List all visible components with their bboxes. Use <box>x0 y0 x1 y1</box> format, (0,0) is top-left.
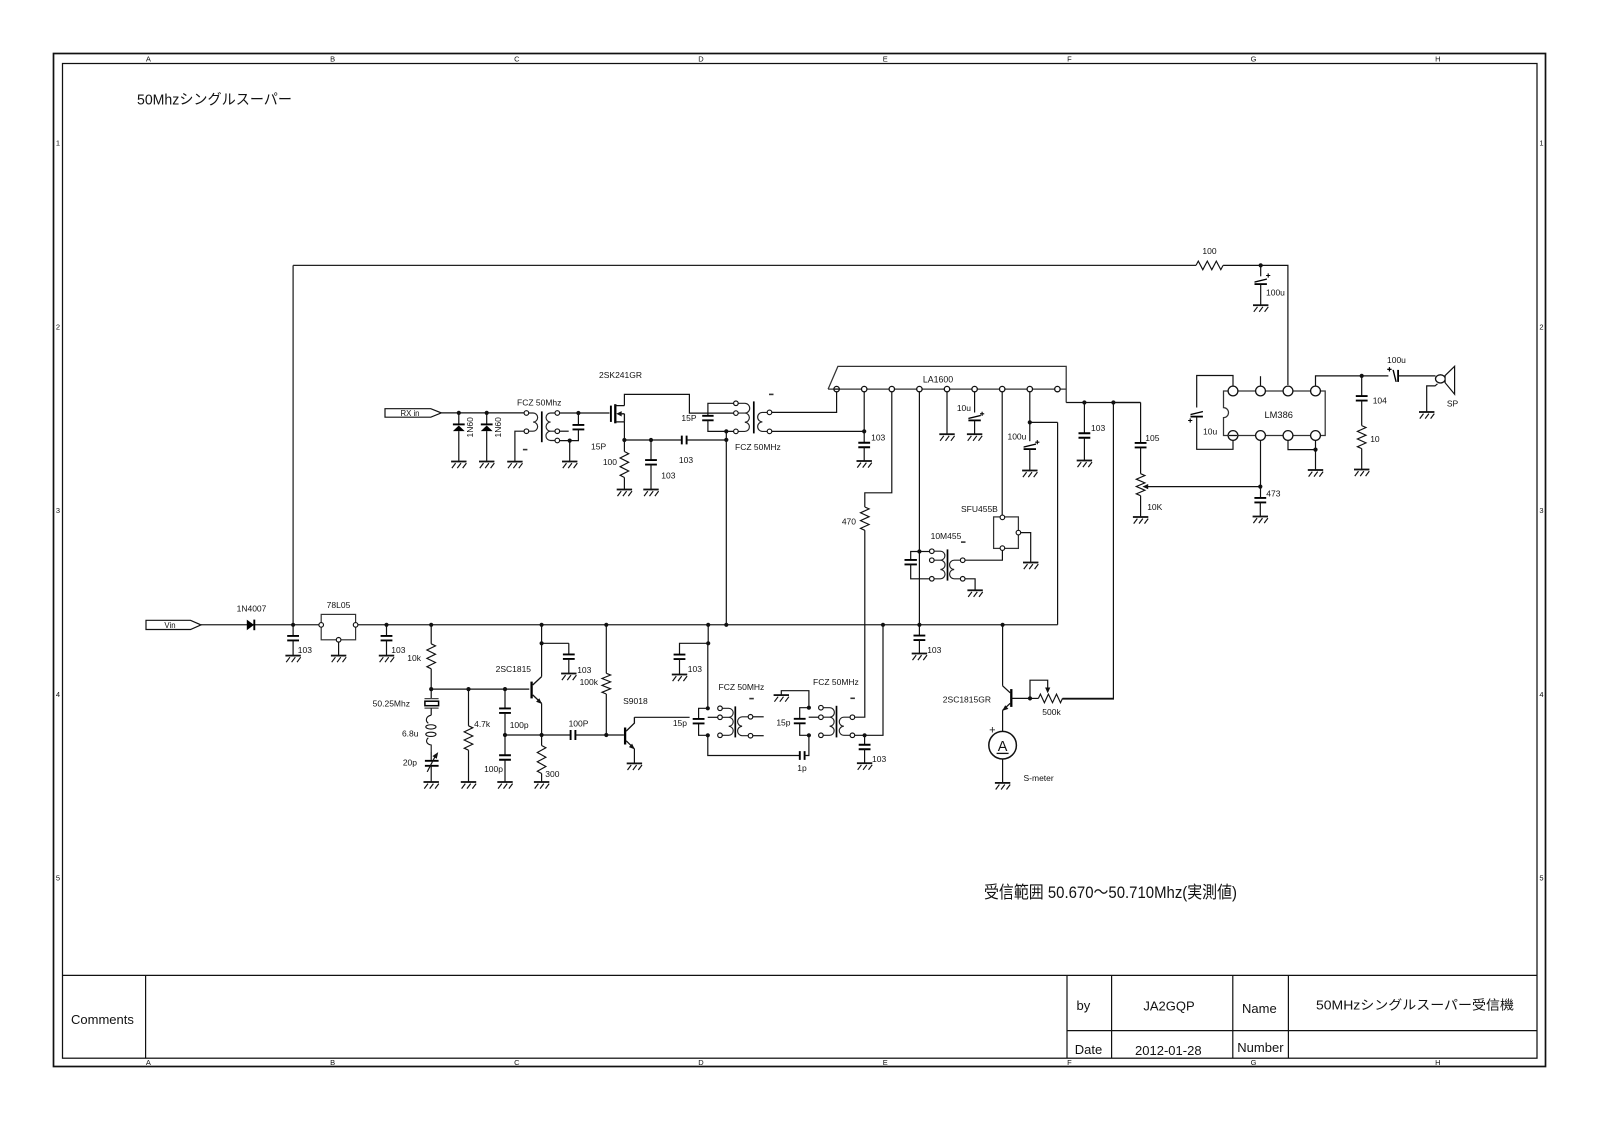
wire T2 hot to tank cap <box>708 403 734 416</box>
svg-text:10K: 10K <box>1147 502 1162 512</box>
wire C103a to ground <box>292 641 294 656</box>
wire L6.8u to trimmer <box>430 752 432 760</box>
wire C103 to ground <box>679 659 681 675</box>
ground (78L05) <box>331 656 346 663</box>
junction base line / R4.7k <box>466 687 470 691</box>
junction rail / riser <box>724 623 728 627</box>
ground (D1) <box>451 462 466 469</box>
junction C103 source bypass <box>649 438 653 442</box>
terminal 78L05 gnd <box>336 638 341 643</box>
svg-text:2SC1815GR: 2SC1815GR <box>943 695 991 705</box>
wire LA1600 pin5 lead <box>946 392 948 434</box>
svg-text:C: C <box>514 1058 520 1067</box>
transistor Q 2SK241GR MOSFET <box>610 406 612 422</box>
svg-text:RX in: RX in <box>400 409 419 418</box>
wire T4 top to ground bracket <box>781 691 809 708</box>
wire rail to 103 tap <box>707 625 709 644</box>
wire LA1600 pin3 lead to R470 <box>865 392 892 507</box>
pin 1 LA1600 <box>834 386 839 391</box>
svg-text:2: 2 <box>56 322 60 331</box>
capacitor C 104 (zobel) <box>1356 396 1368 401</box>
ground (det C103) <box>1077 461 1092 468</box>
wire T2 secondary cold to pin2 node <box>772 430 864 432</box>
svg-text:50MHzシングルスーパー受信機: 50MHzシングルスーパー受信機 <box>1316 998 1514 1013</box>
pin 7 LA1600 <box>1000 386 1005 391</box>
plus mark output cap <box>1387 367 1391 371</box>
wire RX in to T1 <box>441 412 524 414</box>
title block lines <box>63 975 1538 1058</box>
svg-text:2SK241GR: 2SK241GR <box>599 370 642 380</box>
svg-text:Name: Name <box>1242 1001 1277 1016</box>
wire T3 bottom to 1p <box>708 735 800 755</box>
pot wiper arrow 500k <box>1045 688 1050 694</box>
wire C473 to ground <box>1259 502 1261 516</box>
wire C100u to ground <box>1260 284 1262 305</box>
diode D 1N60 first <box>458 413 460 425</box>
ground (R100) <box>617 490 632 497</box>
capacitor C 15p (T3 tank) <box>693 719 705 724</box>
svg-text:103: 103 <box>927 645 941 655</box>
wire T1 to 2SK241 gate <box>560 412 610 414</box>
capacitor C 103 (rail bypass right) <box>914 636 926 641</box>
svg-text:G: G <box>1251 1058 1257 1067</box>
junction rail / R10k <box>429 623 433 627</box>
port Vin flag <box>146 620 201 629</box>
svg-text:103: 103 <box>1091 423 1105 433</box>
wire C103 to ground <box>650 465 652 490</box>
svg-text:2SC1815: 2SC1815 <box>496 664 532 674</box>
svg-text:500k: 500k <box>1042 707 1061 717</box>
wire to C103 source <box>650 440 652 460</box>
svg-text:78L05: 78L05 <box>327 600 351 610</box>
svg-text:15P: 15P <box>591 441 606 451</box>
diode D 1N4007 <box>247 620 254 631</box>
ground (D2) <box>479 462 494 469</box>
svg-text:FCZ 50Mhz: FCZ 50Mhz <box>517 397 561 407</box>
capacitor C 103 (Vin input bypass) <box>287 636 299 641</box>
svg-text:FCZ 50MHz: FCZ 50MHz <box>719 682 765 692</box>
svg-text:B: B <box>330 55 335 64</box>
wire T5 to SFU455B in <box>965 550 1002 560</box>
svg-text:H: H <box>1435 55 1440 64</box>
ground (C100p lower) <box>497 782 512 789</box>
wire to C100u supply <box>1260 265 1262 276</box>
svg-text:5: 5 <box>1539 874 1543 883</box>
wire 500k wiper loop <box>1030 680 1048 698</box>
capacitor C 103 (interstage coupling) <box>682 436 687 445</box>
svg-text:D: D <box>698 55 704 64</box>
svg-text:6.8u: 6.8u <box>402 728 419 738</box>
port RX in flag <box>385 409 441 418</box>
svg-text:10u: 10u <box>1203 427 1217 437</box>
wire T3 secondary top stub <box>753 716 764 718</box>
wire AGC riser to 500k <box>1063 403 1114 700</box>
wire C100u to speaker <box>1398 375 1435 377</box>
svg-text:103: 103 <box>679 455 693 465</box>
wire C100p lower to ground <box>504 760 506 782</box>
capacitor C 100u (supply) <box>1255 273 1271 284</box>
wire rail right riser to LA1600 pin8 net <box>1057 422 1059 624</box>
wire 1p to T4 bottom <box>805 735 809 755</box>
junction T3 top node <box>706 706 710 710</box>
wire C103 to ground <box>864 749 866 763</box>
wire output to C100u <box>1362 375 1389 377</box>
wire LA1600 pin6 lead <box>974 392 976 413</box>
wire left supply riser <box>292 265 294 624</box>
svg-text:15p: 15p <box>776 717 790 727</box>
IC U LM386 body <box>1224 391 1326 436</box>
wire mixer input riser lower <box>707 643 709 708</box>
regulator U 78L05 body <box>321 614 355 639</box>
svg-text:100p: 100p <box>510 720 529 730</box>
svg-text:2: 2 <box>1539 322 1543 331</box>
wire T1 primary cold to ground <box>515 431 524 461</box>
svg-text:Date: Date <box>1075 1042 1102 1057</box>
capacitor C 473 <box>1254 498 1266 503</box>
junction rail / T3 riser <box>706 623 710 627</box>
junction D2 tap <box>485 411 489 415</box>
wire pin8 to rail riser <box>1030 421 1058 423</box>
ground (T4 top) <box>774 695 789 702</box>
phase mark T3 <box>749 698 754 700</box>
terminal SFU455B top <box>1000 515 1005 520</box>
capacitor C 15P (T2 tank) <box>702 416 713 421</box>
junction gate node / C15P <box>576 411 580 415</box>
capacitor C 103 (oscillator collector bypass) <box>563 654 575 659</box>
transformer T4 primary winding <box>823 708 834 736</box>
wire to C103 det <box>1083 403 1085 434</box>
junction emitter node <box>540 733 544 737</box>
transformer T5 secondary winding <box>950 560 961 579</box>
junction 103 tap <box>706 641 710 645</box>
wire R4.7k to ground <box>468 750 470 782</box>
svg-text:LA1600: LA1600 <box>923 374 953 384</box>
transistor Q S9018 <box>624 728 626 745</box>
capacitor C 103 (T4 out bypass) <box>859 745 871 750</box>
capacitor C 103 (T3 node bypass) <box>674 655 686 660</box>
wire SFU455B gnd lead <box>1021 533 1031 563</box>
meter M S-meter <box>989 731 1017 759</box>
ground (SFU455B) <box>1023 563 1038 570</box>
svg-text:3: 3 <box>1539 506 1543 515</box>
wire pin6 cap to ground <box>974 421 976 435</box>
svg-text:104: 104 <box>1373 396 1387 406</box>
transformer T1 secondary winding <box>546 413 555 441</box>
transformer T1 core <box>541 411 543 442</box>
wire coupling C103 to riser <box>687 439 727 441</box>
capacitor C 103 (detector) <box>1079 433 1091 438</box>
svg-text:4: 4 <box>56 690 60 699</box>
capacitor C 100p (feedback lower) <box>499 755 511 760</box>
ground (S-meter) <box>995 783 1010 790</box>
ground (pin6) <box>967 434 982 441</box>
wire pin4 node to T5 <box>919 551 929 553</box>
capacitor C 10u (pin6) <box>968 412 984 421</box>
junction base node S9018 <box>604 733 608 737</box>
svg-text:473: 473 <box>1266 488 1280 498</box>
wire to coupling C103 <box>651 439 682 441</box>
terminal SFU455B bottom <box>1000 546 1005 551</box>
wire to C103 IF <box>863 431 865 442</box>
wire source node to C103 <box>624 439 651 441</box>
svg-text:103: 103 <box>688 664 702 674</box>
svg-text:5: 5 <box>56 874 60 883</box>
svg-text:100P: 100P <box>569 719 589 729</box>
svg-text:G: G <box>1251 55 1257 64</box>
wire C103 to ground <box>863 447 865 461</box>
wire node to crystal <box>430 689 432 699</box>
junction rail / S-meter collector <box>1001 623 1005 627</box>
svg-text:4: 4 <box>1539 690 1543 699</box>
wire T5 cold to ground <box>965 579 975 591</box>
wire C100p upper to emitter node <box>504 713 506 735</box>
svg-text:10k: 10k <box>407 653 421 663</box>
junction source node <box>622 438 626 442</box>
terminal 78L05 out <box>353 623 358 628</box>
wire to C103a <box>292 625 294 636</box>
wire rail to 2SC1815GR collector <box>1002 625 1004 686</box>
wire T3 middle stub joint <box>708 716 718 718</box>
svg-text:103: 103 <box>871 432 885 442</box>
wire base to 500k <box>1030 697 1038 699</box>
transformer T4 secondary winding <box>839 717 850 735</box>
ground (T1 bottom) <box>562 462 577 469</box>
pin 9 LA1600 <box>1055 386 1060 391</box>
transformer T3 core <box>734 706 736 737</box>
svg-text:100k: 100k <box>580 677 599 687</box>
wire C105 to volume <box>1140 447 1142 473</box>
resistor R 100 (source) <box>620 452 629 478</box>
ground (T4 C103) <box>857 763 872 770</box>
ground (T3 C103) <box>672 675 687 682</box>
filter F SFU455B body <box>994 517 1019 549</box>
wire R300 leads <box>541 735 543 782</box>
wire LM386 pins3-4 tie <box>1288 441 1316 450</box>
junction det out / C103 <box>1082 400 1086 404</box>
svg-text:F: F <box>1067 55 1072 64</box>
phase mark 10M455 <box>961 541 966 543</box>
junction rail / R100k <box>604 623 608 627</box>
wire 2SK241 source down <box>623 422 625 440</box>
wire T4 tank cap loop <box>800 708 809 736</box>
svg-text:1N4007: 1N4007 <box>237 604 267 614</box>
svg-text:1p: 1p <box>797 763 807 773</box>
wire T4 secondary bottom to rail <box>855 625 883 736</box>
svg-text:105: 105 <box>1145 433 1159 443</box>
svg-text:103: 103 <box>577 665 591 675</box>
pin 5 LA1600 <box>944 386 949 391</box>
svg-text:by: by <box>1077 998 1091 1013</box>
ground (source C103) <box>643 490 658 497</box>
junction rail / T4 feed <box>881 623 885 627</box>
wire LA1600 pin8 lead <box>1029 392 1031 423</box>
wire LM386 pin7 stub <box>1260 376 1262 385</box>
ground (pin8 C100u) <box>1022 471 1037 478</box>
wire LA1600 pin4 lead to rail <box>918 392 920 625</box>
svg-text:Vin: Vin <box>164 621 175 630</box>
pin top 3 LM386 <box>1283 386 1293 396</box>
junction base / 500k <box>1028 696 1032 700</box>
transformer T5 core <box>947 549 949 580</box>
wire 500k to AGC riser <box>1063 697 1114 699</box>
capacitor C 100p (feedback upper) <box>499 708 511 713</box>
ground (supply C100u) <box>1253 305 1268 312</box>
junction wiper / pin2 <box>1258 485 1262 489</box>
svg-text:100p: 100p <box>484 764 503 774</box>
capacitor C 103 (source bypass) <box>645 460 657 465</box>
svg-text:Number: Number <box>1237 1040 1284 1055</box>
wire LM386 bypass loop lower <box>1197 417 1233 449</box>
junction det out / AGC riser <box>1111 400 1115 404</box>
wire tank cap to T5 bottom <box>911 564 930 578</box>
junction base line / C100p <box>503 687 507 691</box>
trimmer capacitor CT 20p <box>425 761 439 766</box>
svg-text:S-meter: S-meter <box>1024 773 1054 783</box>
pin bottom 4 LM386 <box>1311 431 1321 441</box>
svg-text:FCZ 50MHz: FCZ 50MHz <box>735 442 781 452</box>
svg-text:100: 100 <box>1202 246 1216 256</box>
svg-text:1N60: 1N60 <box>465 417 475 438</box>
junction T4 top node <box>807 706 811 710</box>
wire T2 secondary to LA1600 pin1 <box>772 392 837 413</box>
wire C15P bottom to T1 tap <box>560 429 579 440</box>
svg-text:B: B <box>330 1058 335 1067</box>
junction pin2 node <box>862 429 866 433</box>
pin 2 LA1600 <box>862 386 867 391</box>
transistor Q 2SC1815 <box>530 682 532 699</box>
resistor R 10k <box>427 644 436 669</box>
wire pin8 to C100u <box>1029 422 1031 441</box>
capacitor C 100u (output) <box>1392 370 1398 382</box>
svg-text:100: 100 <box>603 457 617 467</box>
transformer T2 primary winding <box>738 403 750 431</box>
terminal SFU455B gnd <box>1016 530 1021 535</box>
junction Vin rail / riser / C103 <box>291 623 295 627</box>
wire R100k to base node <box>605 694 607 735</box>
ground (rail C103) <box>912 654 927 661</box>
wire output to C104 <box>1361 376 1363 396</box>
resistor R 100k <box>602 673 611 694</box>
svg-text:20p: 20p <box>403 757 417 767</box>
wire rail to R100k <box>605 625 607 674</box>
capacitor C 103 (5V rail bypass) <box>381 636 393 641</box>
svg-text:A: A <box>146 55 151 64</box>
wire top supply rail <box>293 264 1196 266</box>
phase mark T1 <box>523 449 528 451</box>
svg-text:1: 1 <box>56 139 60 148</box>
junction emitter node left <box>503 733 507 737</box>
wire C103 det to ground <box>1083 438 1085 461</box>
svg-text:103: 103 <box>661 471 675 481</box>
svg-text:15P: 15P <box>681 413 696 423</box>
transformer T2 secondary winding <box>758 412 768 431</box>
wire trimmer to ground <box>430 766 432 782</box>
pin top 4 LM386 <box>1311 386 1321 396</box>
svg-text:300: 300 <box>545 769 559 779</box>
meter A underline <box>997 752 1009 754</box>
wire rail to collector node <box>541 625 543 644</box>
diode D 1N60 second <box>486 413 488 425</box>
svg-text:103: 103 <box>872 754 886 764</box>
wire C103b to ground <box>386 641 388 656</box>
svg-text:10M455: 10M455 <box>931 531 962 541</box>
capacitor C 100P (coupling) <box>571 730 576 740</box>
IC U LA1600 body <box>828 366 1066 402</box>
pin bottom 1 LM386 <box>1228 431 1238 441</box>
wire LM386 output top <box>1316 376 1362 386</box>
wire tie to ground <box>1315 450 1317 470</box>
junction pin8 node <box>1028 420 1032 424</box>
wire rail to C103 <box>918 625 920 636</box>
wire to C100p lower <box>504 735 506 755</box>
ground (Vin C103) <box>285 656 300 663</box>
wire 2SC1815GR base <box>1011 697 1030 699</box>
wire to C103 T4 <box>864 735 866 745</box>
wire LM386 pin2 lead down <box>1260 441 1262 498</box>
pin top 1 LM386 <box>1228 386 1238 396</box>
junction riser / T2 cold <box>724 429 728 433</box>
speaker SP <box>1436 375 1446 383</box>
pot wiper arrow 10K <box>1142 484 1148 489</box>
svg-text:JA2GQP: JA2GQP <box>1143 999 1194 1014</box>
junction rail / C103 rail bypass <box>917 623 921 627</box>
resistor R 10K (volume pot) <box>1136 474 1145 496</box>
junction pin4 / 10M455 <box>917 549 921 553</box>
ground (R300) <box>534 782 549 789</box>
ground (R4.7k) <box>461 782 476 789</box>
wire T3 secondary bottom stub <box>753 735 764 737</box>
wire volume to ground <box>1140 496 1142 517</box>
phase mark T4 <box>850 697 855 699</box>
svg-text:E: E <box>883 55 888 64</box>
junction rail / C103b <box>384 623 388 627</box>
wire 2SC1815 collector riser <box>541 643 543 676</box>
capacitor C 15p (T4 tank) <box>794 719 806 724</box>
wire 100P to S9018 base <box>575 734 624 736</box>
pin 8 LA1600 <box>1027 386 1032 391</box>
wire 2SC1815 emitter down <box>541 703 543 735</box>
svg-text:1: 1 <box>1539 139 1543 148</box>
resistor R 500k (pot) <box>1038 694 1062 703</box>
wire rail to R10k <box>430 625 432 644</box>
resistor R 10 (zobel) <box>1357 426 1366 449</box>
capacitor C 105 <box>1135 443 1147 448</box>
svg-text:103: 103 <box>298 645 312 655</box>
wire crystal to L6.8u <box>430 708 432 715</box>
wire LA1600 pin9 exit <box>1066 402 1140 404</box>
wire collector to C103 <box>542 642 569 644</box>
ground (T1) <box>507 462 522 469</box>
junction crystal node <box>429 687 433 691</box>
svg-text:LM386: LM386 <box>1265 410 1293 420</box>
svg-text:受信範囲 50.670〜50.710Mhz(実測値): 受信範囲 50.670〜50.710Mhz(実測値) <box>984 883 1237 902</box>
transformer T3 primary winding <box>722 708 733 735</box>
wire C104 to R10 <box>1361 401 1363 426</box>
wire to C103 collector <box>568 643 570 654</box>
junction T1 bottom / ground <box>568 439 572 443</box>
ground (C473) <box>1253 517 1268 524</box>
wire 2SK241 drain to T2 <box>624 394 733 413</box>
wire emitter to meter <box>1002 710 1004 731</box>
wire C103 to ground <box>918 640 920 654</box>
pin bottom 2 LM386 <box>1256 431 1266 441</box>
transformer T4 core <box>836 706 838 738</box>
ground (T5) <box>967 590 982 597</box>
svg-text:100u: 100u <box>1266 287 1285 297</box>
svg-text:A: A <box>146 1058 151 1067</box>
svg-text:FCZ 50MHz: FCZ 50MHz <box>813 677 859 687</box>
wire to C15P <box>577 413 579 425</box>
